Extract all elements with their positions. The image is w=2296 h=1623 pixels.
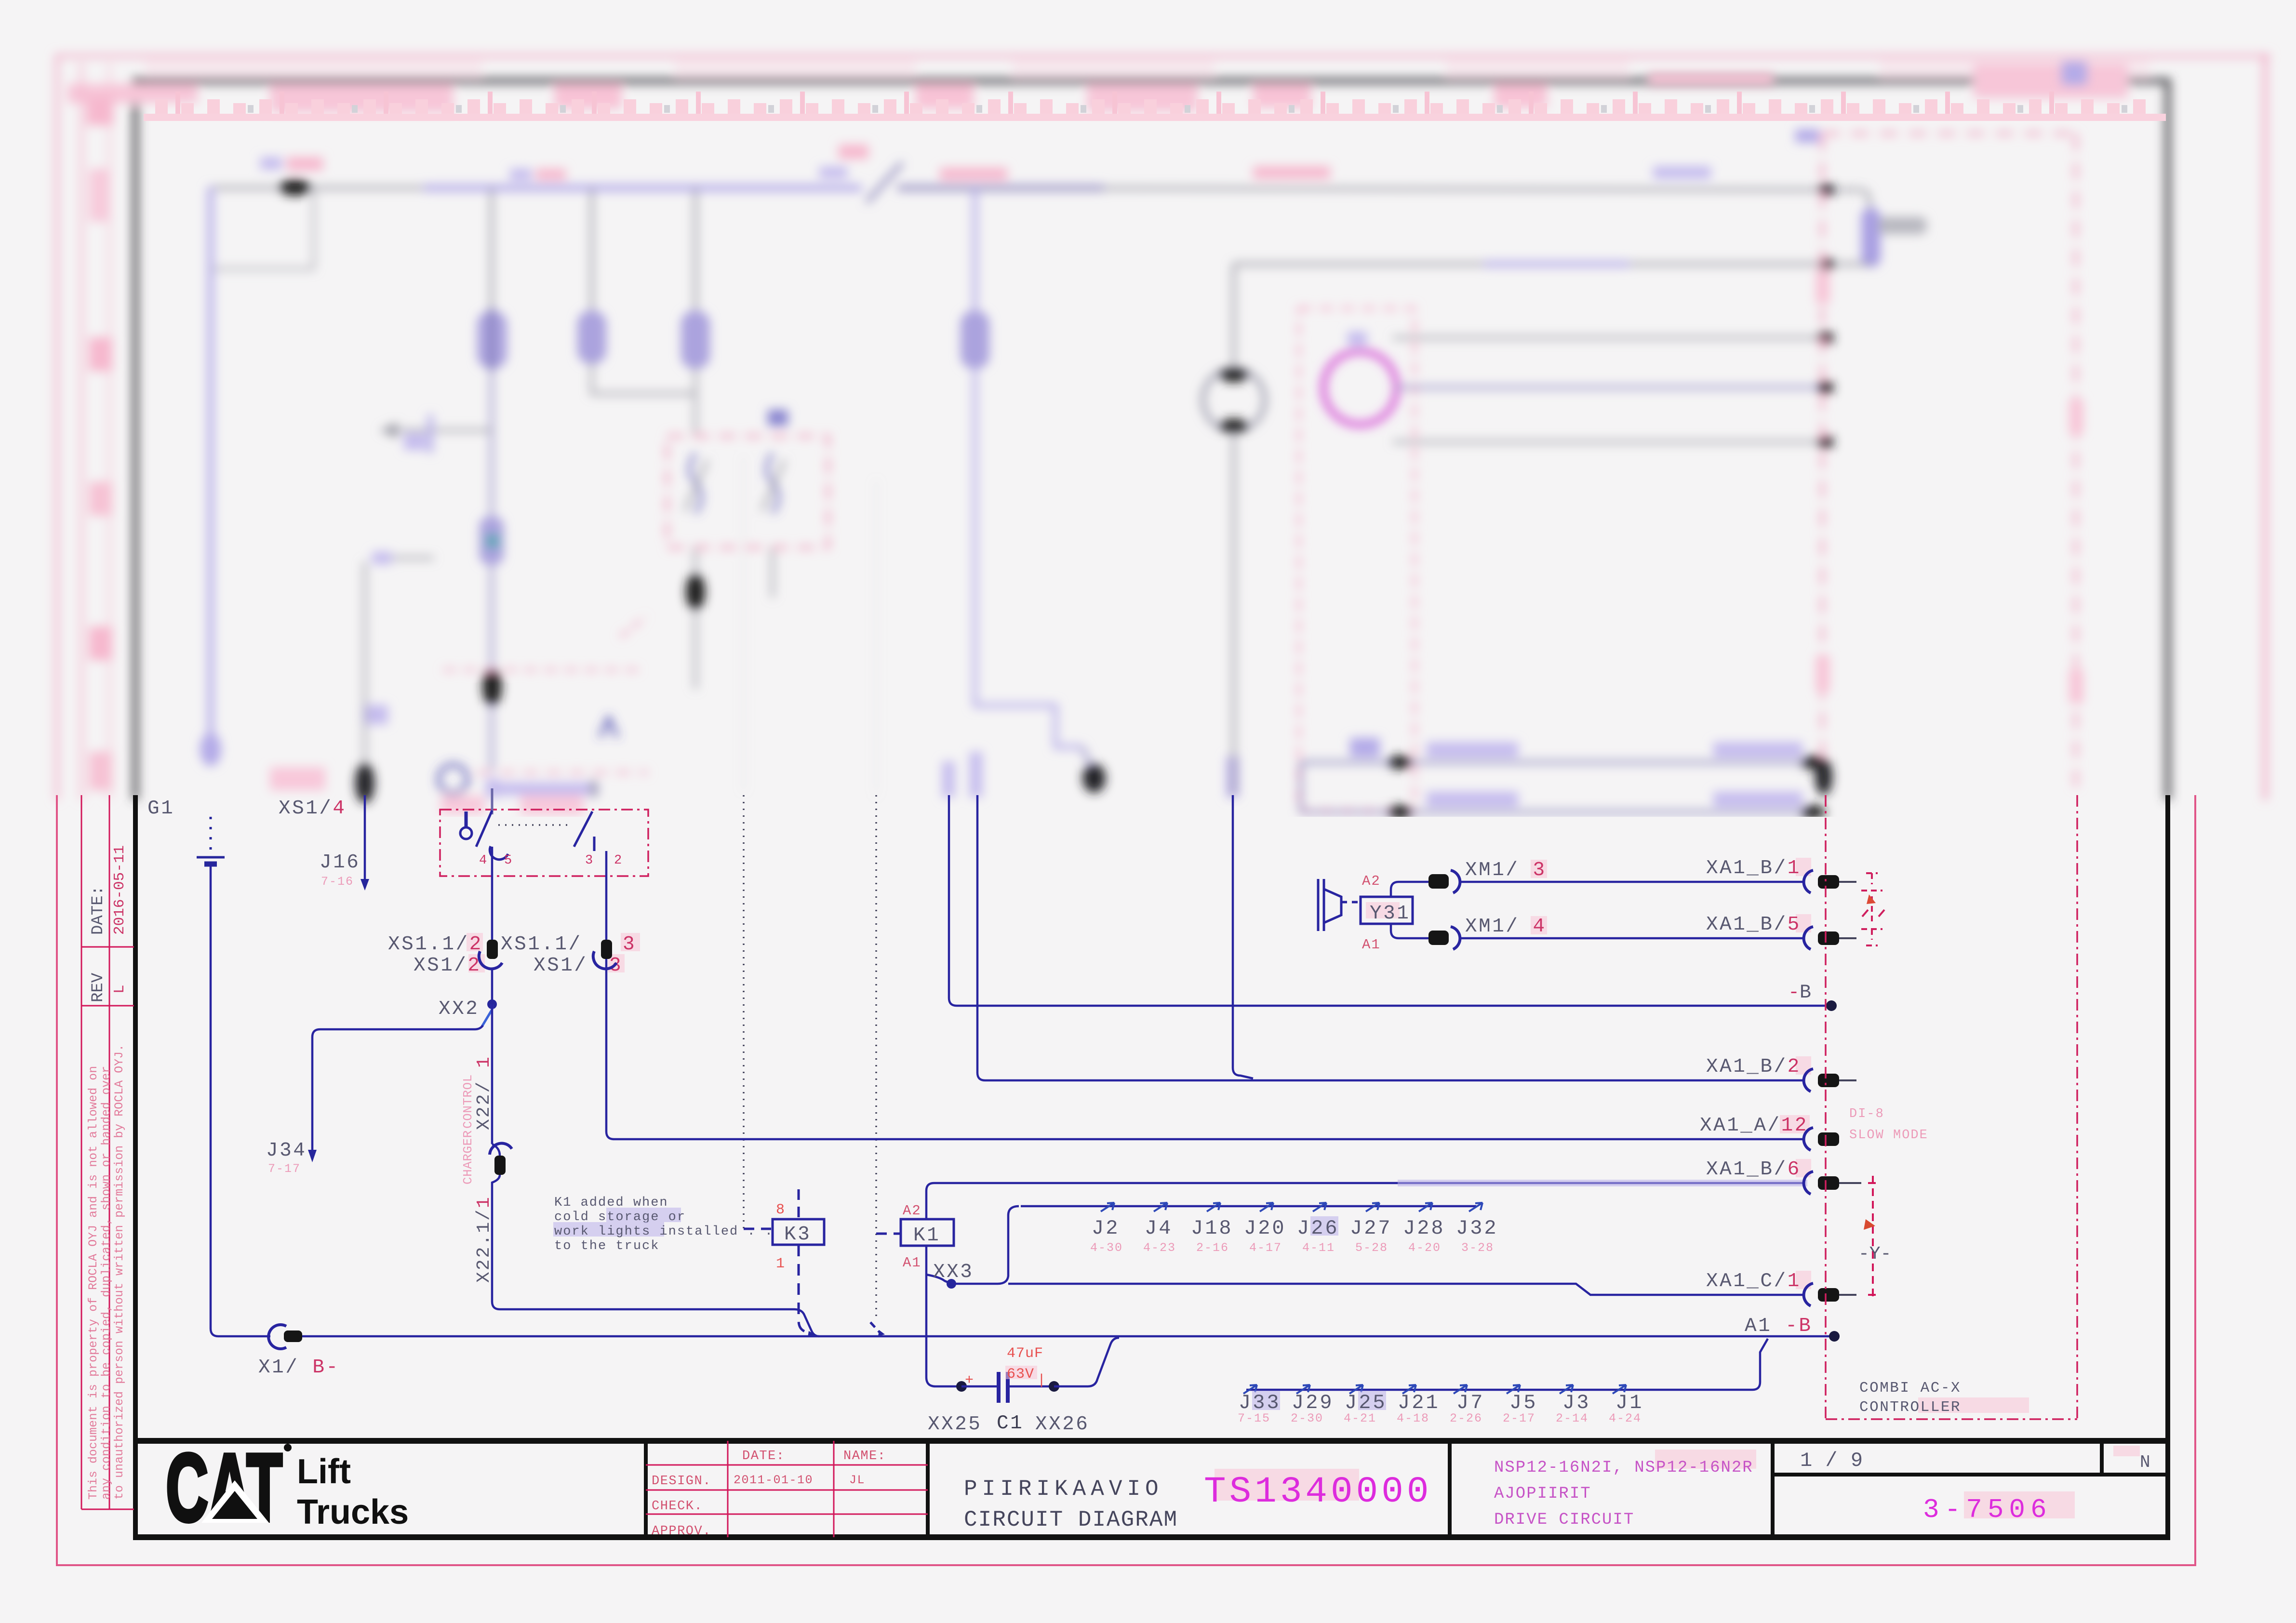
main battery-plus bus (211, 188, 862, 766)
svg-text:J18: J18 (1191, 1217, 1233, 1240)
Y arrow orange (1864, 1219, 1875, 1230)
svg-text:X22/ 1: X22/ 1 (474, 1055, 494, 1130)
dotted vertical net line left (743, 795, 745, 1229)
svg-text:DESIGN.: DESIGN. (652, 1474, 711, 1489)
svg-text:3-28: 3-28 (1461, 1241, 1494, 1255)
svg-text:XA1_B/2: XA1_B/2 (1706, 1056, 1801, 1078)
svg-text:work lights installed . .: work lights installed . . (554, 1224, 774, 1239)
pink dashed line at boundary (477, 771, 648, 774)
svg-text:4-24: 4-24 (1609, 1411, 1642, 1425)
lavender highlight on return wire (1484, 261, 1629, 267)
controller boundary top dash line (1822, 132, 2076, 135)
svg-text:47uF: 47uF (1007, 1345, 1043, 1362)
J2 signal bus (1021, 1205, 1476, 1208)
svg-text:2-17: 2-17 (1503, 1411, 1535, 1425)
svg-text:to the truck: to the truck (554, 1239, 659, 1253)
wire below fuse 2 to relay box (592, 361, 695, 436)
svg-text:XX26: XX26 (1035, 1413, 1089, 1436)
wire below fuse 4 (975, 367, 1082, 747)
svg-text:4-11: 4-11 (1302, 1241, 1335, 1255)
svg-text:4-20: 4-20 (1408, 1241, 1441, 1255)
svg-text:5-28: 5-28 (1355, 1241, 1388, 1255)
svg-text:4-30: 4-30 (1090, 1241, 1123, 1255)
svg-text:CONTROLLER: CONTROLLER (1859, 1399, 1961, 1416)
svg-text:J21: J21 (1398, 1391, 1440, 1414)
J2 arrow (1101, 1203, 1114, 1211)
svg-text:DATE:: DATE: (742, 1449, 785, 1463)
J16 arrowhead (360, 879, 369, 891)
svg-text:2011-01-10: 2011-01-10 (734, 1473, 813, 1487)
date/name red grid (727, 1441, 729, 1537)
relay K3 dashed wire top (744, 1228, 771, 1230)
node on bus (279, 179, 311, 196)
svg-text:XX2: XX2 (439, 998, 479, 1020)
thermostat symbol (460, 827, 472, 839)
svg-text:J7: J7 (1456, 1391, 1484, 1414)
svg-text:XS1.1/2: XS1.1/2 (388, 933, 483, 956)
svg-text:Y31: Y31 (1370, 903, 1410, 925)
wire K1 A2 up to XA1_B/6 line (926, 1183, 1805, 1219)
divider date/center (926, 1441, 930, 1537)
wire below relay box (694, 547, 697, 689)
svg-text:Trucks: Trucks (297, 1493, 409, 1531)
sidebar red box lines (81, 795, 82, 1509)
diode arrow red (1867, 894, 1876, 904)
wire C1 to B- rail (1054, 1338, 1119, 1386)
svg-text:J20: J20 (1244, 1217, 1286, 1240)
motor brush cap top (1219, 368, 1248, 382)
bus continues right of switch (897, 188, 1860, 190)
pump motor dashed pink box (1299, 308, 1415, 811)
connector XA1_B/5 cup (1804, 927, 1813, 949)
label 3-7506 (1964, 1491, 2075, 1518)
node -B (1826, 1000, 1837, 1011)
pink dash diagonal (621, 617, 646, 637)
svg-text:TS1340000: TS1340000 (1204, 1471, 1432, 1513)
svg-text:NAME:: NAME: (843, 1449, 886, 1463)
divider center/NSP (1448, 1441, 1452, 1537)
svg-text:PIIRIKAAVIO: PIIRIKAAVIO (964, 1477, 1163, 1502)
outer pink border bottom (56, 1564, 2196, 1566)
svg-text:7-17: 7-17 (268, 1162, 301, 1176)
bus lavender highlight segments (424, 185, 862, 191)
svg-text:XX25: XX25 (928, 1413, 982, 1436)
svg-text:J33: J33 (1239, 1391, 1281, 1414)
fuse F? 1 (477, 311, 507, 369)
svg-text:JL: JL (849, 1473, 865, 1487)
J4 arrow (1154, 1203, 1167, 1211)
svg-text:4-17: 4-17 (1249, 1241, 1282, 1255)
motor phase wire 3 (1393, 440, 1825, 443)
B- rail (302, 1335, 1834, 1338)
svg-text:NSP12-16N2I, NSP12-16N2R: NSP12-16N2I, NSP12-16N2R (1494, 1459, 1753, 1477)
battery minus wire (211, 864, 270, 1336)
motor brush cap bottom (1219, 419, 1248, 433)
connector XA1_B/1 cup (1804, 870, 1813, 893)
svg-text:This document is property of R: This document is property of ROCLA OYJ a… (86, 1066, 100, 1500)
connector XA1_B/5 plug (1818, 931, 1839, 945)
highlight blobs on controller lines (1816, 270, 1829, 304)
pink highlight TS (1215, 1469, 1359, 1501)
Y symbol red dashed (1868, 1176, 1878, 1301)
pink highlight patches in tick band (270, 84, 453, 113)
branch arrow left of fuse1 (381, 429, 492, 432)
node on return wire (1819, 258, 1834, 270)
lavender label patches on sensor wires (1427, 742, 1518, 758)
node A1-B (1829, 1331, 1840, 1342)
svg-text:4-23: 4-23 (1143, 1241, 1176, 1255)
J20 arrow (1260, 1203, 1273, 1211)
connector X1/B- cup (268, 1325, 286, 1349)
bus corner down to inline connector (1860, 190, 1871, 212)
blue circle symbol near boundary (439, 765, 467, 794)
svg-text:CHECK.: CHECK. (652, 1499, 703, 1514)
svg-text:REV: REV (89, 972, 107, 1002)
svg-text:2-30: 2-30 (1291, 1411, 1323, 1425)
bus lavender highlight over battery drop (208, 187, 214, 764)
cup terminal between pins 4-5 (490, 846, 508, 860)
wire K1 A1 down (925, 1246, 928, 1377)
controller dash-dot boundary right (2076, 795, 2078, 1419)
wire from pin 4 down (491, 847, 494, 941)
J5 arrow (1507, 1385, 1520, 1394)
key switch gap and blade (867, 163, 902, 202)
dotted vertical net line right (875, 795, 877, 1234)
connector XA1_A/12 cup (1804, 1128, 1813, 1150)
svg-text:DI-8: DI-8 (1849, 1107, 1884, 1121)
wire XX2 down to X22 connector (491, 1004, 494, 1144)
black contact blob on drop1 (482, 667, 502, 706)
connector XS1.1/2-XS1/2 cup (479, 951, 502, 969)
fuse drop 2 (590, 188, 593, 318)
black blob below relay box (686, 573, 705, 610)
battery G1 symbol (197, 856, 225, 859)
node on bus at controller line (1819, 184, 1834, 196)
svg-text:COMBI AC-X: COMBI AC-X (1859, 1380, 1961, 1397)
connector XA1_B/2 plug (1818, 1074, 1839, 1087)
wire XX2 diagonal to J34 branch (482, 1004, 492, 1026)
svg-text:XM1/ 3: XM1/ 3 (1465, 859, 1547, 881)
wire A/12 from XS1/3 (606, 959, 1802, 1139)
J16 signal wire (364, 795, 366, 886)
motor wire down (1232, 431, 1235, 795)
wire Y31 A2 to XM1/3 (1391, 882, 1429, 897)
svg-text:XS1/: XS1/ (534, 955, 587, 977)
svg-text:J2: J2 (1092, 1217, 1120, 1240)
connector XA1_B/1 plug (1818, 875, 1839, 889)
title block top border (133, 1438, 2170, 1444)
connector XS1.1/3-XS1/3 cup (593, 951, 616, 969)
inner frame top line (132, 78, 2170, 84)
K3 join arrow on B- rail (808, 1331, 815, 1337)
outer pink border right sharp (2194, 795, 2196, 1566)
wire B/2 from blur (977, 795, 1802, 1080)
label XA1_A/12 (1780, 1115, 1810, 1133)
wire XM1/3 to XA1_B/1 (1461, 881, 1802, 883)
J32 arrow (1469, 1203, 1482, 1211)
svg-text:A2: A2 (1362, 873, 1381, 889)
svg-text:7-16: 7-16 (321, 875, 354, 889)
black nodes on sensor wires (1388, 756, 1413, 769)
svg-text:XA1_B/6: XA1_B/6 (1706, 1158, 1801, 1181)
connector XS1.1/2-XS1/2 plug (487, 940, 498, 959)
blurred blob at J16 top (355, 763, 374, 803)
motor wire from blur joins B/2 (1233, 795, 1253, 1078)
svg-text:J32: J32 (1456, 1217, 1498, 1240)
connector X22/1-X22.1/1 cup (490, 1143, 512, 1155)
fuse drop 4 (973, 188, 977, 318)
svg-text:J29: J29 (1292, 1391, 1334, 1414)
label XA1_B/6 (1796, 1159, 1811, 1177)
sensor wire pair upper (1301, 762, 1825, 812)
faint dotted verticals continuation (743, 458, 745, 795)
J1 arrow (1613, 1385, 1626, 1394)
svg-text:63V: 63V (1007, 1366, 1034, 1383)
svg-text:3: 3 (623, 933, 636, 956)
CAT logo (166, 1434, 292, 1542)
svg-text:APPROV.: APPROV. (652, 1524, 711, 1539)
svg-text:XS1.1/: XS1.1/ (501, 933, 582, 956)
diode marks (1862, 910, 1884, 917)
motor phase wire 2 (1396, 386, 1825, 389)
svg-text:DATE:: DATE: (89, 886, 107, 935)
connector XA1_B/2 cup (1804, 1069, 1813, 1091)
svg-text:J28: J28 (1403, 1217, 1445, 1240)
inner frame right sharp (2165, 795, 2170, 1538)
sensor wire pair lower (1301, 811, 1825, 813)
wire XM1/4 to XA1_B/5 (1461, 937, 1802, 940)
svg-text:G1: G1 (147, 798, 174, 820)
svg-text:1: 1 (776, 1256, 786, 1272)
fuse 2 (577, 311, 606, 364)
return wire from connector (1234, 263, 1871, 266)
relay K1 box (901, 1219, 954, 1246)
svg-text:Lift: Lift (297, 1452, 351, 1491)
svg-text:AJOPIIRIT: AJOPIIRIT (1494, 1485, 1591, 1503)
wire XX3 to J2 bus riser (951, 1206, 1019, 1284)
switch arm right (574, 811, 592, 847)
small component blob on drop1 (480, 517, 504, 565)
label NSP12-16N2I, NSP12-16N2R (1655, 1450, 1756, 1469)
svg-text:CONTROL: CONTROL (461, 1074, 475, 1129)
stub B/5 (1839, 937, 1856, 939)
outer pink border right (blurred, offset) (2263, 54, 2267, 800)
row line under 1/9 (1773, 1473, 2168, 1477)
svg-text:4: 4 (479, 853, 488, 868)
svg-text:XA1_A/12: XA1_A/12 (1700, 1115, 1808, 1137)
svg-text:SLOW MODE: SLOW MODE (1849, 1128, 1928, 1143)
label XM1/ 4 (1531, 916, 1547, 934)
svg-text:-Y-: -Y- (1858, 1244, 1891, 1264)
J28 arrow (1419, 1203, 1432, 1211)
stub B/1 (1839, 881, 1856, 883)
label blob on magenta circle (1348, 332, 1367, 346)
svg-text:2-14: 2-14 (1556, 1411, 1589, 1425)
blurred blob at controller line boundary (1815, 758, 1832, 795)
svg-text:XA1_B/1: XA1_B/1 (1706, 857, 1801, 879)
thermostat switch arm left (476, 811, 492, 847)
wire C1 riser left (926, 1377, 961, 1386)
label Y31 (1366, 902, 1400, 918)
wire J34 branch (312, 1029, 320, 1157)
svg-text:-B: -B (1788, 982, 1811, 1004)
lavender caps above sharp verticals (970, 752, 982, 798)
node XX26 (1049, 1381, 1059, 1392)
label XA1_C/1 (1796, 1271, 1811, 1289)
outer pink border left sharp (56, 795, 58, 1566)
inner frame right (blurred part) (2165, 78, 2171, 800)
svg-text:L: L (111, 984, 128, 994)
contact 1 in box (690, 453, 701, 513)
blob at battery wire bottom (200, 732, 221, 766)
stub C/1 (1839, 1294, 1856, 1296)
wire down to motor (1232, 264, 1235, 371)
svg-text:X1/ B-: X1/ B- (258, 1357, 340, 1379)
label smear left of node (260, 157, 282, 170)
node XX25 (956, 1381, 967, 1392)
outer pink border left (blurred part) (55, 54, 59, 800)
wire -B from blur (949, 795, 1829, 1006)
label 63V (1005, 1366, 1037, 1379)
label XM1/ 3 (1531, 860, 1547, 878)
blue mark above box (768, 410, 788, 426)
svg-text:J25: J25 (1345, 1391, 1387, 1414)
J7 arrow (1454, 1385, 1467, 1394)
J29 arrow (1296, 1385, 1310, 1394)
relay K3 dashed wire bottom (799, 1245, 813, 1335)
svg-text:A1: A1 (903, 1255, 921, 1271)
svg-text:to unauthorized person without: to unauthorized person without written p… (112, 1044, 126, 1500)
inner frame left sharp (133, 795, 138, 1538)
label XA1_B/5 (1796, 914, 1811, 932)
lavender highlight on B6 wire (1398, 1180, 1807, 1186)
svg-text:5: 5 (504, 853, 513, 868)
wire below fuse 1 (490, 369, 494, 771)
svg-text:A1: A1 (1362, 937, 1381, 953)
J33 arrow (1243, 1385, 1257, 1394)
J16 blurred wire (363, 561, 366, 790)
title block bottom border (133, 1534, 2170, 1540)
svg-text:XM1/ 4: XM1/ 4 (1465, 916, 1547, 938)
svg-text:2: 2 (614, 853, 623, 868)
svg-text:XA1_C/1: XA1_C/1 (1706, 1270, 1801, 1292)
connector XA1_B/6 plug (1818, 1176, 1839, 1190)
controller boundary blurred left dash line (1821, 133, 1824, 795)
connector XM1/4 cup (1451, 927, 1460, 949)
fuse 3 (681, 311, 710, 369)
svg-text:1 / 9: 1 / 9 (1800, 1449, 1863, 1472)
relay K3 box (773, 1219, 824, 1245)
fuse 4 (961, 311, 989, 369)
svg-text:J26: J26 (1297, 1217, 1339, 1240)
connector X1/B- plug (284, 1330, 302, 1342)
controller dash-dot boundary bottom (1826, 1418, 2077, 1420)
svg-text:any condition to be copied, du: any condition to be copied, duplicated, … (99, 1066, 113, 1500)
motor M circle (1203, 369, 1265, 431)
wire into thermostat from blur (491, 788, 494, 814)
connector XA1_C/1 cup (1804, 1283, 1813, 1306)
stub B/2 (1839, 1079, 1856, 1081)
svg-text:J16: J16 (320, 851, 360, 874)
blob at drop4 end (1082, 764, 1106, 793)
wire Y31 A1 to XM1/4 (1391, 924, 1429, 938)
blue A glyph (600, 718, 617, 737)
svg-text:CIRCUIT DIAGRAM: CIRCUIT DIAGRAM (964, 1507, 1178, 1532)
motor phase wire 1 (1393, 336, 1825, 339)
J26 arrow (1313, 1203, 1326, 1211)
divider 1/9 N (2100, 1441, 2104, 1475)
pink mark in N box (2113, 1446, 2140, 1456)
connector XS1.1/3-XS1/3 plug (601, 940, 612, 959)
small lavender blob on upper sensor wire left (1350, 738, 1380, 757)
connector XM1/3 plug (1428, 874, 1449, 889)
wire XS1/2 down to XX2 (491, 969, 494, 1002)
svg-text:J34: J34 (266, 1140, 307, 1162)
svg-text:2-26: 2-26 (1450, 1411, 1482, 1425)
svg-text:3-7506: 3-7506 (1923, 1494, 2052, 1525)
svg-text:A2: A2 (903, 1203, 921, 1219)
contact 2 in box (767, 453, 778, 513)
svg-text:C1: C1 (997, 1412, 1024, 1435)
svg-text:CAT: CAT (166, 1434, 282, 1542)
J33 bus labels (1252, 1391, 1280, 1410)
svg-text:K1: K1 (913, 1224, 940, 1247)
horn Y31 box (1361, 897, 1413, 924)
inline connector lavender bar (1861, 208, 1881, 267)
svg-text:XS1/2: XS1/2 (414, 955, 481, 977)
wire X22.1/1 down and right to B- rail (492, 1144, 819, 1336)
J18 arrow (1207, 1203, 1220, 1211)
pump motor magenta circle (1323, 351, 1397, 425)
relay contact dashed box (667, 436, 828, 547)
svg-text:4-18: 4-18 (1397, 1411, 1429, 1425)
label XA1_B/1 (1796, 858, 1811, 876)
svg-text:K3: K3 (784, 1224, 811, 1246)
J27 arrow (1366, 1203, 1379, 1211)
fuse drop 1 (490, 188, 493, 333)
svg-text:|: | (1037, 1372, 1047, 1389)
teal mark (486, 534, 499, 548)
gray stub line mid-left (375, 557, 434, 559)
svg-text:4-21: 4-21 (1344, 1411, 1376, 1425)
lavender blob left (363, 705, 388, 724)
svg-text:J5: J5 (1509, 1391, 1537, 1414)
controller dash-dot boundary left (1825, 795, 1827, 1419)
divider NSP/pagebox (1771, 1441, 1775, 1537)
svg-text:J3: J3 (1562, 1391, 1590, 1414)
J21 arrow (1402, 1385, 1416, 1394)
pink highlights behind connector numbers (467, 933, 483, 951)
label CONTROLLER (1918, 1397, 2029, 1413)
wire XX3 to XA1_C/1 (1008, 1284, 1803, 1295)
controller boundary blurred right dash line (2074, 133, 2078, 795)
stub B/6 (1839, 1182, 1861, 1184)
svg-text:7-15: 7-15 (1238, 1411, 1270, 1425)
relay K1 dashed wire from dotted line (876, 1233, 901, 1235)
horn speaker symbol (1318, 879, 1341, 931)
svg-text:CHARGER: CHARGER (461, 1130, 475, 1184)
J34 arrowhead (308, 1150, 317, 1162)
svg-text:2-16: 2-16 (1196, 1241, 1229, 1255)
svg-text:J1: J1 (1615, 1391, 1643, 1414)
J3 arrow (1560, 1385, 1573, 1394)
J33 signal bus (1246, 1339, 1768, 1390)
connector XA1_C/1 plug (1818, 1288, 1839, 1302)
fuse drop 3 (694, 188, 697, 318)
inline connector gray tail (1879, 217, 1927, 234)
outer pink border top (57, 54, 2270, 58)
connector XM1/3 cup (1451, 870, 1460, 893)
